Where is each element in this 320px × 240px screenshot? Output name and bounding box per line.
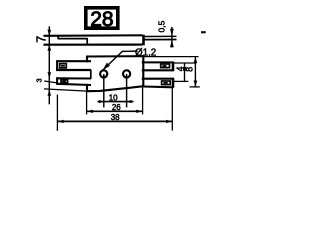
svg-text:10: 10	[109, 93, 118, 102]
svg-text:26: 26	[112, 103, 121, 112]
svg-text:8: 8	[185, 67, 195, 72]
svg-text:3: 3	[35, 78, 44, 82]
svg-text:7: 7	[35, 36, 49, 43]
svg-text:0,5: 0,5	[156, 20, 166, 32]
svg-text:28: 28	[90, 8, 113, 31]
svg-text:38: 38	[111, 113, 120, 122]
svg-text:4: 4	[175, 66, 185, 71]
